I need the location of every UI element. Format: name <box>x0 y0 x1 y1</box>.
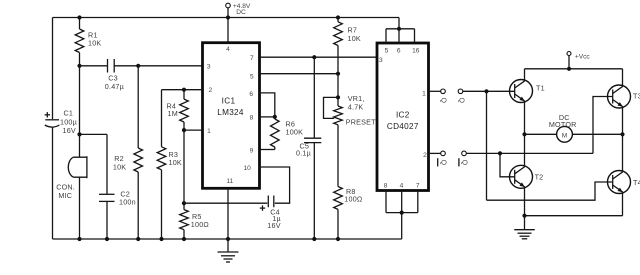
wire Vcc rail <box>525 68 623 70</box>
node C2 to ground rail <box>105 237 109 241</box>
wire Q to T1 base <box>463 90 515 92</box>
pin 8 label <box>250 115 254 122</box>
node IC2 supply bracket <box>397 27 401 31</box>
resistor R6 <box>271 119 304 147</box>
svg-text:10K: 10K <box>348 34 361 43</box>
svg-text:C1: C1 <box>64 109 74 118</box>
svg-text:T2: T2 <box>535 173 544 182</box>
node R3 to ground rail <box>159 237 163 241</box>
wire pin 7 stub bottom <box>417 191 419 213</box>
node motor left <box>522 132 526 136</box>
wire R1 to node A <box>79 53 81 66</box>
pin 5 label IC2 <box>385 47 389 54</box>
pin 5 label <box>250 73 254 80</box>
resistor R4 <box>167 99 189 122</box>
terminal Qbar plug <box>441 151 446 156</box>
wire C5 bottom lead <box>313 143 315 239</box>
node Q branch <box>484 89 488 93</box>
node supply / IC1 pin 4 <box>226 15 230 19</box>
pin 1 label <box>207 128 211 135</box>
wire R2 bottom lead <box>137 172 139 239</box>
resistor R8 <box>334 187 363 210</box>
label Qbar <box>438 158 447 166</box>
wire top rail drop to IC2 <box>398 18 400 29</box>
svg-text:3: 3 <box>379 57 383 64</box>
wire left branch lower (C1 bottom lead) <box>52 127 54 240</box>
svg-text:10: 10 <box>244 165 252 172</box>
wire R8 bottom lead <box>337 209 339 239</box>
node pin6/pin8/R6 <box>273 115 277 119</box>
node pin 11 to ground rail <box>226 237 230 241</box>
capacitor C3 <box>105 59 124 91</box>
node top rail / R1 <box>77 15 81 19</box>
wire IC1 pin 10 to C4 <box>260 167 290 203</box>
wire motor right <box>572 133 622 135</box>
wire motor left <box>525 133 557 135</box>
label Q <box>439 97 446 103</box>
pin 3 label <box>207 63 211 70</box>
wire IC2 bottom bracket <box>386 212 418 214</box>
pin 11 label <box>226 178 233 185</box>
wire IC1 pin 5 to divider <box>260 73 339 75</box>
pin 10 label <box>244 165 252 172</box>
transistor T2 <box>510 165 544 188</box>
node R5 to ground rail <box>182 237 186 241</box>
node pin5/divider <box>336 72 340 76</box>
wire mic top lead <box>79 134 81 157</box>
ground under IC1 <box>218 239 239 262</box>
wire pin 6 stub <box>398 29 400 43</box>
svg-text:2: 2 <box>208 87 212 94</box>
svg-text:9: 9 <box>250 147 254 154</box>
pin 4 label IC2 <box>400 182 404 189</box>
wire Qbar up to T3 base <box>593 97 613 154</box>
svg-text:T1: T1 <box>536 83 545 92</box>
wire node A to C3 <box>80 65 108 67</box>
wire IC1 pin 8 <box>260 116 275 118</box>
node R5/C4 junction <box>182 201 186 205</box>
wire +4.8V top rail <box>53 17 400 19</box>
wire T4 collector lead <box>622 134 624 171</box>
wire IC2 ground drop <box>401 213 403 239</box>
svg-text:T4: T4 <box>633 178 640 187</box>
svg-text:DC: DC <box>236 9 246 16</box>
pin 2 label IC2 <box>423 152 427 159</box>
svg-text:MIC: MIC <box>58 191 72 200</box>
node mic to ground rail <box>77 237 81 241</box>
terminal Q plug <box>441 89 446 94</box>
wire R4 top lead <box>183 90 185 99</box>
wire Q vertical <box>486 91 488 200</box>
node pin7/C5 <box>312 55 316 59</box>
pin 1 label IC2 <box>422 90 426 97</box>
wire R3 top lead <box>161 90 163 147</box>
wire R7 top lead <box>337 18 339 22</box>
svg-text:+Vcc: +Vcc <box>575 53 591 60</box>
microphone CON. MIC <box>56 156 87 200</box>
svg-text:LM324: LM324 <box>217 108 244 117</box>
wire Qbar to T2 base <box>500 153 515 176</box>
pin 2 label <box>208 87 212 94</box>
svg-text:1M: 1M <box>168 109 178 118</box>
wire VR1 to R8 <box>337 125 339 187</box>
svg-text:16: 16 <box>412 47 420 54</box>
pin 16 label IC2 <box>412 47 420 54</box>
wire IC1 pin 4 stub <box>227 18 229 43</box>
svg-text:7: 7 <box>416 182 420 189</box>
wire C3 to IC1 pin 3 <box>114 65 202 67</box>
node ground bus <box>522 214 526 218</box>
wire pin 5 stub <box>385 29 387 43</box>
svg-text:4.7K: 4.7K <box>348 103 364 112</box>
svg-text:IC1: IC1 <box>222 97 236 106</box>
node A (R1/C3/mic) <box>77 64 81 68</box>
wire pin 16 stub <box>414 29 416 43</box>
transistor T4 <box>608 171 640 194</box>
svg-text:1: 1 <box>422 90 426 97</box>
node pin1/R4 bottom <box>182 128 186 132</box>
wire IC2 pin 2 stub <box>429 152 441 154</box>
wire R4 bottom lead <box>183 122 185 130</box>
svg-text:100Ω: 100Ω <box>344 195 363 204</box>
capacitor C1 <box>45 109 77 135</box>
capacitor C2 <box>99 189 136 206</box>
op-amp IC1 LM324 <box>203 43 260 189</box>
svg-text:100µ: 100µ <box>60 117 77 126</box>
svg-text:Q: Q <box>439 97 446 103</box>
svg-text:6: 6 <box>249 91 253 98</box>
wire R6 bottom / IC1 pin 9 <box>260 147 275 150</box>
svg-text:PRESET: PRESET <box>346 117 376 126</box>
terminal Qbar socket <box>462 151 467 156</box>
wire mic bottom lead <box>79 177 81 239</box>
svg-text:IC2: IC2 <box>396 110 410 119</box>
svg-text:5: 5 <box>385 47 389 54</box>
svg-text:3: 3 <box>207 63 211 70</box>
node R8 to ground rail <box>336 237 340 241</box>
resistor R5 <box>180 210 210 230</box>
pin 6 label <box>249 91 253 98</box>
svg-text:M: M <box>562 133 568 140</box>
wire C2 bottom lead <box>106 201 108 239</box>
wire C2 top lead <box>106 134 108 194</box>
wire pin1 node down to R5 <box>183 130 185 203</box>
wire Qbar to T3 branch <box>466 152 593 154</box>
node motor right <box>620 132 624 136</box>
capacitor C5 <box>296 138 321 157</box>
svg-text:10K: 10K <box>113 162 126 171</box>
wire R1 top lead <box>79 18 81 30</box>
node Qbar branch <box>498 151 502 155</box>
wire IC1 pin 2 to R3 branch <box>162 89 203 91</box>
pin 3 label IC2 <box>379 57 383 64</box>
transistor T1 <box>510 80 545 103</box>
terminal Q socket <box>458 89 463 94</box>
ground right <box>514 216 535 239</box>
resistor R3 <box>157 147 182 170</box>
svg-text:0.1µ: 0.1µ <box>296 149 311 158</box>
svg-text:100n: 100n <box>119 198 136 207</box>
capacitor C4 <box>260 196 281 231</box>
motor M <box>549 113 577 142</box>
resistor R1 <box>75 29 101 53</box>
svg-text:4: 4 <box>226 46 230 53</box>
pin 4 label <box>226 46 230 53</box>
svg-text:Q: Q <box>439 160 446 166</box>
wire left branch upper (C1 top lead) <box>52 18 54 120</box>
wire mic node to C2 <box>80 133 108 135</box>
wire C4 left lead <box>184 202 267 204</box>
pin 7 label <box>250 55 254 62</box>
wire T4 emitter lead <box>622 193 624 216</box>
transistor T3 <box>608 85 640 108</box>
svg-text:CON.: CON. <box>56 182 75 191</box>
wire T1 emitter lead <box>524 102 526 135</box>
wire T3 emitter lead <box>622 107 624 134</box>
svg-text:100Ω: 100Ω <box>191 220 210 229</box>
node C5 to ground rail <box>312 237 316 241</box>
node Vcc rail <box>567 67 571 71</box>
node IC2 ground bracket <box>400 211 404 215</box>
wire IC1 pin 1 <box>184 129 203 131</box>
wire IC1 pin 7 to IC2 pin 3 <box>260 56 378 58</box>
wire node A down to mic node <box>79 66 81 135</box>
node top rail / R7 <box>336 15 340 19</box>
svg-text:T3: T3 <box>633 92 640 101</box>
svg-text:6: 6 <box>397 47 401 54</box>
svg-text:0.47µ: 0.47µ <box>105 82 124 91</box>
node pin2/R4 top <box>182 88 186 92</box>
label Qbar 2 <box>459 158 468 166</box>
svg-text:1: 1 <box>207 128 211 135</box>
wire IC1 pin 11 stub <box>227 188 229 239</box>
svg-text:MOTOR: MOTOR <box>549 120 577 129</box>
svg-text:11: 11 <box>226 178 233 185</box>
svg-text:Q: Q <box>457 97 464 103</box>
wire IC2 pin 1 stub <box>429 90 441 92</box>
wire VR1 wiper loop <box>324 97 339 118</box>
label Q 2 <box>457 97 464 103</box>
wire pin 8 stub bottom <box>385 191 387 213</box>
node C3/R2 junction <box>136 64 140 68</box>
svg-text:10K: 10K <box>169 158 182 167</box>
wire R5 top lead <box>183 203 185 209</box>
svg-text:7: 7 <box>250 55 254 62</box>
svg-text:8: 8 <box>384 182 388 189</box>
node R2 to ground rail <box>136 237 140 241</box>
node VR1 top / wiper <box>336 95 340 99</box>
wire C5 top lead <box>313 57 315 138</box>
svg-text:100K: 100K <box>286 128 304 137</box>
pin 6 label IC2 <box>397 47 401 54</box>
preset VR1 <box>334 94 376 126</box>
svg-text:5: 5 <box>250 73 254 80</box>
wire T2 collector lead <box>524 134 526 166</box>
wire R2 top lead <box>137 66 139 148</box>
terminal +Vcc <box>567 52 590 69</box>
flip-flop IC2 CD4027 <box>377 43 429 191</box>
wire emitter ground bus <box>525 215 623 217</box>
resistor R2 <box>113 148 143 172</box>
svg-text:8: 8 <box>250 115 254 122</box>
terminal +4.8V DC <box>226 3 251 18</box>
wire IC2 top bracket <box>386 28 415 30</box>
svg-text:16V: 16V <box>63 126 76 135</box>
node mic/C2 junction <box>77 132 81 136</box>
svg-text:10K: 10K <box>88 39 101 48</box>
svg-text:CD4027: CD4027 <box>387 122 419 131</box>
wire R5 bottom lead <box>183 230 185 239</box>
svg-text:4: 4 <box>400 182 404 189</box>
resistor R7 <box>334 22 361 46</box>
wire R7 to VR1 <box>337 46 339 107</box>
wire R3 bottom lead <box>161 170 163 239</box>
svg-text:16V: 16V <box>267 221 280 230</box>
wire T1 collector lead <box>524 69 526 81</box>
wire T3 collector lead <box>622 69 624 86</box>
wire pin 4 stub bottom <box>401 191 403 213</box>
wire Q to T4 base <box>487 182 613 200</box>
svg-text:Q: Q <box>461 160 468 166</box>
pin 9 label <box>250 147 254 154</box>
svg-text:2: 2 <box>423 152 427 159</box>
wire IC1 pin 6 <box>260 93 275 117</box>
pin 8 label IC2 <box>384 182 388 189</box>
wire T2 emitter lead <box>524 188 526 216</box>
pin 7 label IC2 <box>416 182 420 189</box>
wire ground bottom rail <box>53 238 402 240</box>
